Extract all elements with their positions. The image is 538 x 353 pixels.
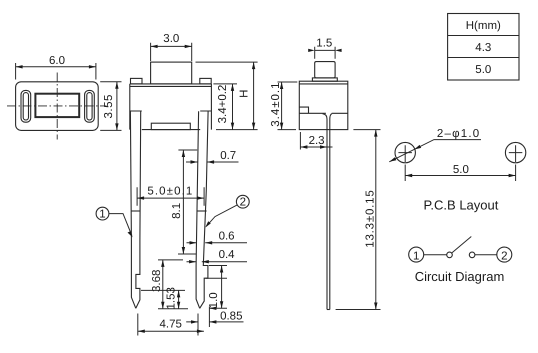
svg-text:5.0: 5.0 <box>475 64 491 76</box>
svg-text:Circuit Diagram: Circuit Diagram <box>415 269 505 284</box>
wire to 2 <box>475 254 497 256</box>
front bottom boss <box>151 123 190 129</box>
dimension 6.0 <box>16 55 96 79</box>
terminal 1 circle <box>409 247 424 262</box>
svg-text:0.4: 0.4 <box>219 249 236 261</box>
contact left <box>447 252 453 258</box>
side stem flange <box>312 78 337 81</box>
top view horizontal centerline <box>7 105 107 107</box>
front top-right tab <box>200 78 211 84</box>
svg-text:3.4+0.2: 3.4+0.2 <box>217 85 229 124</box>
dimension 1.53 <box>141 287 185 309</box>
svg-text:2: 2 <box>240 197 246 209</box>
side body <box>299 81 348 129</box>
svg-text:2: 2 <box>501 250 507 262</box>
pcb hole left <box>395 142 415 162</box>
svg-text:3.55: 3.55 <box>103 94 115 118</box>
svg-text:P.C.B Layout: P.C.B Layout <box>423 198 498 213</box>
dimension 1.5 <box>308 38 341 59</box>
contact right <box>469 252 475 258</box>
terminal leg 1 (left) <box>130 111 140 308</box>
svg-text:5.0±0.1: 5.0±0.1 <box>147 186 193 198</box>
svg-text:0.6: 0.6 <box>219 230 235 242</box>
svg-text:5.0: 5.0 <box>453 164 469 176</box>
svg-text:8.1: 8.1 <box>171 203 183 219</box>
top view right slot <box>85 90 95 122</box>
top view central rectangle <box>35 94 79 117</box>
front body outline <box>130 84 212 130</box>
wire from 1 <box>424 254 447 256</box>
svg-text:4.75: 4.75 <box>160 319 182 331</box>
dimension 0.85 <box>186 307 243 336</box>
svg-text:3.4±0.1: 3.4±0.1 <box>270 81 282 126</box>
svg-text:3.0: 3.0 <box>163 33 179 45</box>
svg-text:H(mm): H(mm) <box>466 20 501 32</box>
svg-text:0.85: 0.85 <box>220 310 242 322</box>
dimension 3.4+0.2 <box>213 84 237 130</box>
top view body outline <box>16 82 99 131</box>
label 2-φ1.0 <box>389 128 481 162</box>
side terminal leg <box>323 114 332 310</box>
dimension 3.0 <box>151 33 192 61</box>
top view left slot <box>21 90 31 122</box>
svg-text:1: 1 <box>99 209 105 221</box>
dimension 8.1 <box>171 150 197 254</box>
dimension 1.0 <box>206 266 228 310</box>
dimension 5.0 (pcb) <box>405 164 515 181</box>
svg-text:13.3±0.15: 13.3±0.15 <box>365 189 377 247</box>
terminal leg 2 (right) <box>196 111 208 308</box>
svg-text:1: 1 <box>413 250 419 262</box>
svg-text:1.0: 1.0 <box>208 292 220 308</box>
label circle 2 <box>205 195 249 227</box>
pcb hole right <box>505 142 525 162</box>
terminal 2 circle <box>497 247 512 262</box>
dimension 3.4±0.1 <box>270 81 298 129</box>
dimension 0.7 <box>186 150 239 164</box>
svg-text:2.3: 2.3 <box>309 135 325 147</box>
dimension 3.68 <box>151 260 188 309</box>
svg-text:1.53: 1.53 <box>165 287 177 309</box>
dimension 2.3 <box>300 132 332 150</box>
svg-text:6.0: 6.0 <box>49 55 65 67</box>
svg-text:4.3: 4.3 <box>475 42 491 54</box>
front top-left tab <box>131 78 143 84</box>
svg-text:2–φ1.0: 2–φ1.0 <box>437 128 480 140</box>
svg-text:1.5: 1.5 <box>316 38 332 50</box>
side stem <box>315 62 335 78</box>
label circle 1 <box>96 207 133 237</box>
svg-text:H: H <box>238 90 250 98</box>
dimension 4.75 <box>138 314 204 336</box>
switch lever <box>452 237 472 254</box>
front stem (button) <box>151 62 192 84</box>
dimension 0.6 <box>187 230 248 244</box>
dimension 5.0±0.1 <box>137 186 204 206</box>
dimension 0.4 <box>187 249 248 264</box>
H dimension <box>196 62 258 130</box>
dimension 13.3±0.15 <box>336 130 381 310</box>
top view vertical centerline <box>56 73 58 140</box>
svg-text:3.68: 3.68 <box>151 270 163 292</box>
svg-text:0.7: 0.7 <box>220 150 236 162</box>
dimension 3.55 <box>100 82 121 131</box>
